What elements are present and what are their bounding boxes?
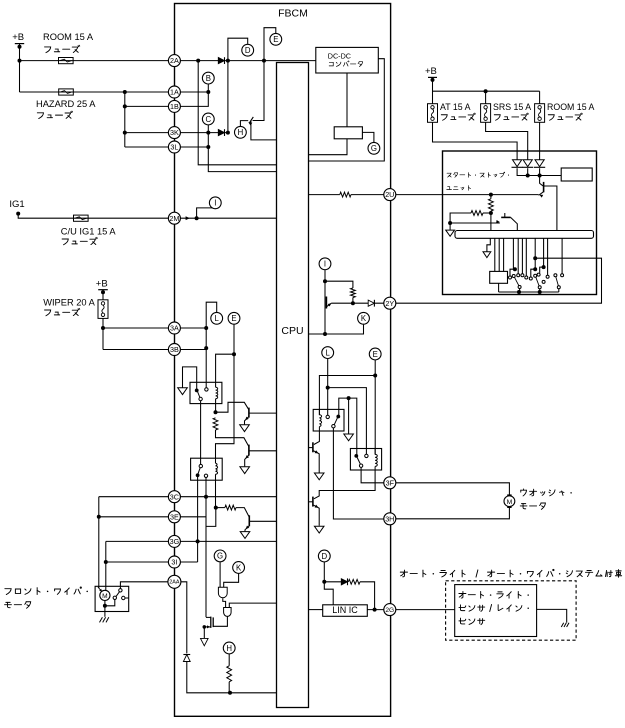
svg-text:E: E — [373, 350, 378, 359]
pin 2Y — [384, 297, 396, 309]
diode D2 on 3K line — [218, 129, 224, 136]
wire to 1B — [125, 105, 169, 107]
svg-text:L: L — [215, 314, 220, 323]
svg-text:3H: 3H — [385, 514, 394, 523]
wire 2A feed — [18, 59, 169, 63]
connector G (bottom) — [214, 550, 226, 562]
svg-text:ROOM 15 A: ROOM 15 A — [43, 32, 94, 42]
wire L stem — [326, 359, 330, 415]
connector I (right) — [319, 258, 331, 270]
diode D1 on 2A line — [218, 57, 224, 64]
wire 2G to sensor — [396, 609, 455, 611]
node RU1 bottom — [489, 195, 493, 231]
fuse ROOM 15A — [59, 58, 74, 64]
wire HAZARD feed — [20, 90, 169, 94]
sensor label kana1 — [459, 591, 529, 598]
svg-text:IG1: IG1 — [9, 199, 24, 210]
WIPER 20 A label — [43, 298, 95, 308]
resistor R1L — [213, 418, 249, 447]
hook to connector H — [240, 121, 248, 127]
svg-text:3B: 3B — [170, 345, 179, 354]
pin 3I — [168, 556, 180, 568]
FBCM module box — [175, 4, 391, 717]
gate U2 — [224, 608, 232, 617]
svg-text:DC-DC: DC-DC — [328, 51, 351, 60]
wire SRS fuse to diode DB — [486, 122, 528, 160]
svg-text:FBCM: FBCM — [278, 8, 308, 20]
wire K to CPU — [309, 325, 364, 336]
resistor R3R (2U) — [340, 192, 384, 197]
connector H (top) — [235, 126, 247, 138]
svg-text:CPU: CPU — [281, 325, 303, 337]
chassis ground (wiper motor) — [100, 617, 109, 622]
rail down to relay1 contact — [205, 328, 207, 388]
transistor QU2 — [450, 213, 517, 231]
svg-text:SRS 15 A: SRS 15 A — [493, 102, 531, 112]
connector D (bottom) — [318, 550, 330, 562]
relay RY1 box — [190, 382, 222, 403]
wire motor common — [103, 600, 115, 608]
ground (unit left) — [446, 223, 455, 236]
washer motor M — [504, 495, 515, 507]
svg-text:2AA: 2AA — [169, 580, 180, 586]
ground (RY1) — [178, 388, 188, 395]
svg-text:LIN IC: LIN IC — [332, 605, 358, 615]
pin 3L — [168, 141, 180, 153]
wire washer motor to 3H — [396, 507, 510, 519]
wire CPU to gate2 — [229, 603, 276, 607]
transistor QA — [309, 442, 320, 472]
relay RY3 coil — [319, 409, 321, 431]
svg-text:G: G — [371, 144, 377, 153]
svg-text:I: I — [324, 260, 326, 269]
ground (QA) — [314, 473, 324, 480]
wire to 3B — [103, 349, 169, 351]
sensor dashed box — [446, 581, 576, 640]
wire 1A to tie — [180, 91, 208, 93]
connector I (left) — [209, 197, 221, 209]
svg-text:3L: 3L — [170, 143, 178, 152]
ROOM 15 A label — [43, 32, 94, 42]
relay RY2 coil — [216, 458, 218, 480]
pin 3C — [168, 491, 180, 503]
ground rail RY3/RY4 contacts — [339, 396, 357, 454]
switch group C — [554, 238, 564, 292]
RY3 contact to 3H — [333, 428, 384, 519]
wire 2A to DC-DC — [180, 59, 316, 63]
diode DC — [534, 160, 545, 168]
transistor Q3L — [245, 515, 277, 531]
+B terminal (WIPER feed) — [96, 279, 108, 295]
wire to 3A — [103, 327, 169, 329]
C/U IG1 label — [61, 227, 117, 237]
svg-text:WIPER 20 A: WIPER 20 A — [43, 298, 95, 308]
relay coil K5 box — [334, 127, 362, 139]
svg-text:C/U IG1 15 A: C/U IG1 15 A — [61, 227, 117, 237]
svg-text:K: K — [236, 563, 242, 572]
wire LIN IC to 2G — [367, 608, 384, 612]
wire L to RY4 contact — [328, 388, 367, 455]
MOSFET Q4 — [203, 617, 214, 629]
SRS fuse label — [493, 102, 531, 120]
svg-text:3G: 3G — [170, 537, 180, 546]
wire to 3L — [125, 146, 169, 148]
step wire coil2 to rail — [206, 508, 216, 527]
pin 3H — [384, 513, 396, 525]
wire G to gate1 — [219, 562, 221, 587]
wire DC-DC right to CPU — [309, 59, 385, 161]
front wiper motor box — [95, 586, 129, 611]
hook to connector D — [228, 38, 248, 60]
connector B — [202, 72, 214, 84]
wire motor to ground — [104, 606, 106, 617]
front wiper motor label kana2 — [5, 602, 31, 608]
wire E down to coil2 — [216, 354, 235, 458]
start stop unit label kana2 — [447, 186, 471, 191]
wire 3G left — [106, 540, 169, 542]
RY2 contact down to 3C rail — [205, 478, 207, 497]
wire 3G/3I down to motor — [104, 541, 108, 590]
svg-text:ROOM 15 A: ROOM 15 A — [547, 102, 595, 112]
HAZARD 25 A label — [36, 99, 96, 109]
ground (MOSFET) — [201, 638, 209, 645]
DC-DC label — [328, 51, 351, 60]
sensor label kana2 — [459, 604, 529, 611]
wire 3C left — [99, 496, 169, 498]
CPU label — [281, 325, 303, 337]
relay RY1 coil — [216, 382, 218, 403]
wire gate1 to gate2 — [223, 598, 226, 607]
svg-text:H: H — [238, 128, 244, 137]
svg-text:M: M — [102, 593, 108, 600]
wire gate2 to MOSFET gate — [213, 617, 227, 627]
resistor R3L — [227, 666, 232, 682]
wires bus to sub box — [495, 238, 504, 271]
svg-text:E: E — [231, 314, 236, 323]
wire wiper fuse to 3A/3B — [101, 318, 105, 349]
ground (Q1L) — [240, 425, 250, 432]
wire CPU to LIN IC — [309, 609, 323, 611]
fuse HAZARD 25A — [59, 89, 74, 95]
connector E (left) — [228, 312, 240, 324]
wire diode to 2A — [225, 61, 230, 135]
svg-text:2M: 2M — [169, 214, 179, 223]
unit sub box — [490, 271, 508, 283]
wire +B unit feed — [433, 77, 540, 103]
LIN IC box — [323, 605, 368, 617]
pin 1A — [168, 86, 180, 98]
hook to connector I (left) — [197, 208, 216, 218]
svg-text:+B: +B — [425, 66, 437, 77]
wire 2Y to unit switches — [396, 258, 602, 303]
wire diode to bottom rail — [187, 662, 277, 695]
fuse SRS 15A — [481, 104, 491, 123]
relay RY4 coil — [375, 449, 377, 471]
relay RY3 box — [313, 409, 344, 431]
pin 3E — [168, 511, 180, 523]
wire resistor to rail — [228, 682, 230, 693]
wire E stem to coil1 — [216, 325, 236, 383]
pin 3A — [168, 322, 180, 334]
HAZARD fuse label kana — [37, 111, 72, 118]
pin 3G — [168, 535, 180, 547]
RY2 common down to 3G/3I — [196, 475, 200, 562]
wire 1B to tie — [180, 92, 208, 106]
relay RY4 contacts — [354, 454, 368, 467]
+B terminal (unit) — [425, 66, 437, 82]
WIPER fuse label kana — [45, 308, 80, 315]
wire H to resistor — [228, 654, 230, 666]
svg-text:3K: 3K — [170, 128, 179, 137]
wire 3E left — [99, 516, 169, 518]
RY4 coil to QB collector — [314, 470, 375, 499]
wire 3I inner — [180, 561, 197, 563]
svg-text:2U: 2U — [385, 190, 394, 199]
connector H (bottom) — [223, 642, 235, 654]
wire resistor to 2Y line — [352, 298, 354, 304]
+B terminal (ROOM/HAZARD feed) — [12, 32, 24, 49]
wire 2Y line — [331, 301, 384, 305]
ground (bus left) — [483, 252, 491, 258]
transistor Q1L — [245, 408, 277, 425]
wire I to resistor — [325, 281, 353, 288]
hook to connector E — [264, 28, 276, 61]
wire 3C to CPU — [180, 495, 276, 499]
chassis ground (sensor) — [561, 623, 569, 627]
svg-text:3E: 3E — [170, 512, 179, 521]
connector G (DC-DC) — [368, 142, 380, 154]
switch group A — [509, 238, 528, 292]
resistor R2L to Q3L — [216, 505, 250, 517]
relay RY1 contacts — [195, 389, 203, 401]
svg-text:M: M — [507, 499, 513, 506]
wire AT fuse to diode DA — [433, 122, 518, 160]
relay RY4 box — [350, 449, 381, 471]
connector K (bottom) — [233, 562, 245, 574]
svg-text:D: D — [321, 552, 327, 561]
fuse AT 15A — [428, 104, 438, 123]
relay RY2 contacts — [196, 464, 208, 477]
wire +B to wiper fuse — [102, 290, 104, 300]
front wiper motor label kana1 — [5, 587, 88, 595]
wire K5 to CPU — [309, 139, 348, 155]
ground (QB) — [314, 526, 324, 533]
diode DA — [512, 160, 523, 168]
pin 2M — [168, 212, 180, 224]
motor park switch — [113, 589, 129, 600]
AT fuse label — [440, 102, 475, 120]
pin 1B — [168, 100, 180, 112]
connector L (right) — [322, 347, 334, 359]
wire 3G to CPU — [180, 540, 276, 542]
washer motor label kana1 — [521, 489, 572, 496]
transistor Q-H (2A switch) — [248, 61, 276, 140]
svg-text:+B: +B — [96, 279, 108, 290]
wire E to coil3 — [319, 360, 377, 415]
wire 2U to QU1 emitter — [489, 193, 539, 197]
wire 2AA to diode — [181, 582, 187, 653]
start stop unit box — [443, 151, 597, 295]
wire B to 1A/1B tie — [206, 84, 210, 94]
wire IG1 to 2M — [18, 214, 169, 219]
wire 3K to diode — [180, 132, 218, 134]
svg-text:L: L — [326, 348, 331, 357]
svg-text:1B: 1B — [170, 102, 179, 111]
svg-text:AT 15 A: AT 15 A — [440, 102, 471, 112]
svg-text:C: C — [205, 115, 211, 124]
svg-text:3C: 3C — [170, 492, 179, 501]
wire CPU to 2U — [309, 194, 340, 196]
unit block box — [561, 168, 592, 181]
relay RY3 contacts — [326, 415, 340, 428]
wire 3C/3E down to motor — [97, 497, 101, 589]
wire I stem — [323, 270, 327, 283]
auto light system heading kana — [400, 569, 621, 577]
ROOM fuse label (unit) — [547, 102, 595, 120]
gate U1 — [218, 587, 227, 598]
connector C — [202, 113, 214, 125]
FBCM label — [278, 8, 308, 20]
svg-text:1A: 1A — [170, 88, 179, 97]
washer motor label kana2 — [520, 503, 545, 509]
sensor box — [455, 585, 537, 637]
hook to connector G — [362, 132, 374, 142]
svg-text:HAZARD 25 A: HAZARD 25 A — [36, 99, 96, 109]
svg-text:3I: 3I — [171, 558, 177, 567]
RY1 common to ground hook — [183, 367, 197, 391]
transistor QU1 — [539, 176, 557, 231]
DC-DC label kana — [329, 61, 362, 67]
pin 2G — [384, 604, 396, 616]
svg-text:2A: 2A — [170, 56, 179, 65]
CPU box — [277, 63, 309, 708]
wire to 3K — [125, 132, 169, 134]
connector K (right) — [358, 312, 370, 324]
resistor RU2 — [448, 211, 491, 225]
switch rail — [499, 290, 559, 294]
wire hazard branch down — [123, 92, 127, 147]
wire C to 3K tie — [206, 125, 210, 134]
wire 3A to rail — [180, 327, 206, 329]
resistor R2R (LIN) — [348, 579, 374, 609]
transistor QB — [309, 497, 320, 526]
start stop unit label kana1 — [447, 172, 509, 177]
svg-text:+B: +B — [12, 32, 24, 43]
diode D5 (LIN) — [324, 578, 347, 585]
RY1 coil bottom node — [214, 404, 218, 415]
wire 3L chain to CPU — [180, 133, 276, 172]
diode DB — [522, 160, 533, 168]
RY2 coil bottom node — [214, 480, 218, 509]
DC-DC converter box — [316, 47, 379, 73]
hook L to 3A/3B rail — [204, 302, 217, 350]
RY4 contact to 3F — [361, 467, 384, 482]
RY1 contact to RY2 — [200, 401, 202, 465]
fuse WIPER 20A — [98, 300, 108, 319]
wire +B down feed — [19, 44, 21, 92]
ground (Q3L) — [240, 532, 250, 539]
resistor R1R — [351, 288, 356, 298]
wire DC-DC to relay coil K5 — [346, 73, 348, 127]
pin 2A — [168, 55, 180, 67]
wire diode common — [517, 168, 561, 177]
wire 2U into unit — [396, 194, 491, 196]
ROOM fuse label kana — [45, 45, 80, 52]
bus bar — [455, 231, 594, 239]
RY1 fixed contact lead — [205, 388, 208, 391]
pin 3B — [168, 344, 180, 356]
connector E (right) — [369, 348, 381, 360]
wire D to LIN IC — [324, 582, 333, 605]
RY3 coil to QA collector — [314, 431, 320, 445]
svg-text:B: B — [206, 74, 211, 83]
svg-text:G: G — [217, 552, 223, 561]
pin 2AA — [168, 575, 181, 588]
transistor Q2L — [245, 445, 277, 467]
relay RY2 box — [191, 458, 223, 480]
svg-text:3F: 3F — [386, 478, 395, 487]
fuse C/U IG1 15A — [74, 215, 89, 221]
svg-text:I: I — [214, 199, 216, 208]
wire 3I left — [106, 561, 169, 563]
pin 2U — [384, 189, 396, 201]
resistor RU1 — [489, 199, 494, 211]
wire 2M to CPU — [180, 216, 276, 220]
ground hook (bus left) — [487, 238, 490, 251]
wire D stem — [322, 562, 326, 584]
wire 2A dot1 to CPU — [198, 61, 276, 165]
connector D (top) — [242, 44, 254, 56]
connector E (top) — [270, 33, 282, 45]
motor M (front wiper) — [98, 587, 110, 601]
fuse ROOM 15A (unit) — [535, 104, 545, 123]
wire 2AA to motor switch — [120, 582, 168, 589]
IG1 terminal — [9, 199, 24, 216]
wire K to gate1 — [224, 574, 239, 588]
diode D4 (2Y) — [368, 300, 374, 307]
hook coil1 to Q1L collector — [216, 402, 249, 412]
wire sub box to switch rail — [498, 283, 500, 292]
connector L (left) — [211, 312, 223, 324]
wire MOSFET source to ground — [203, 627, 205, 638]
pin 3F — [384, 477, 396, 489]
svg-text:K: K — [361, 314, 367, 323]
wire sensor to ground — [537, 609, 567, 622]
rail 3C/3E down to MOSFET drain — [205, 497, 207, 618]
pin 3K — [168, 127, 180, 139]
svg-text:D: D — [245, 46, 251, 55]
wire 3F to washer motor — [396, 483, 510, 496]
wire ROOM fuse to diode DC — [539, 122, 541, 160]
wire 3B to rail — [180, 349, 206, 351]
transistor Q1R — [325, 281, 331, 334]
wire 3E inner — [180, 516, 206, 518]
C/U IG1 label kana — [62, 237, 97, 244]
svg-text:2Y: 2Y — [385, 299, 394, 308]
svg-text:H: H — [226, 644, 232, 653]
svg-text:3A: 3A — [170, 324, 179, 333]
ground (contact rail) — [344, 434, 354, 441]
diode D3 (2AA) — [183, 655, 190, 662]
switch group B — [529, 238, 549, 292]
svg-text:E: E — [273, 35, 278, 44]
svg-text:2G: 2G — [385, 607, 394, 614]
ground (Q2L) — [240, 467, 250, 474]
sensor label kana3 — [459, 618, 485, 625]
wire E to coil4 — [374, 376, 376, 455]
